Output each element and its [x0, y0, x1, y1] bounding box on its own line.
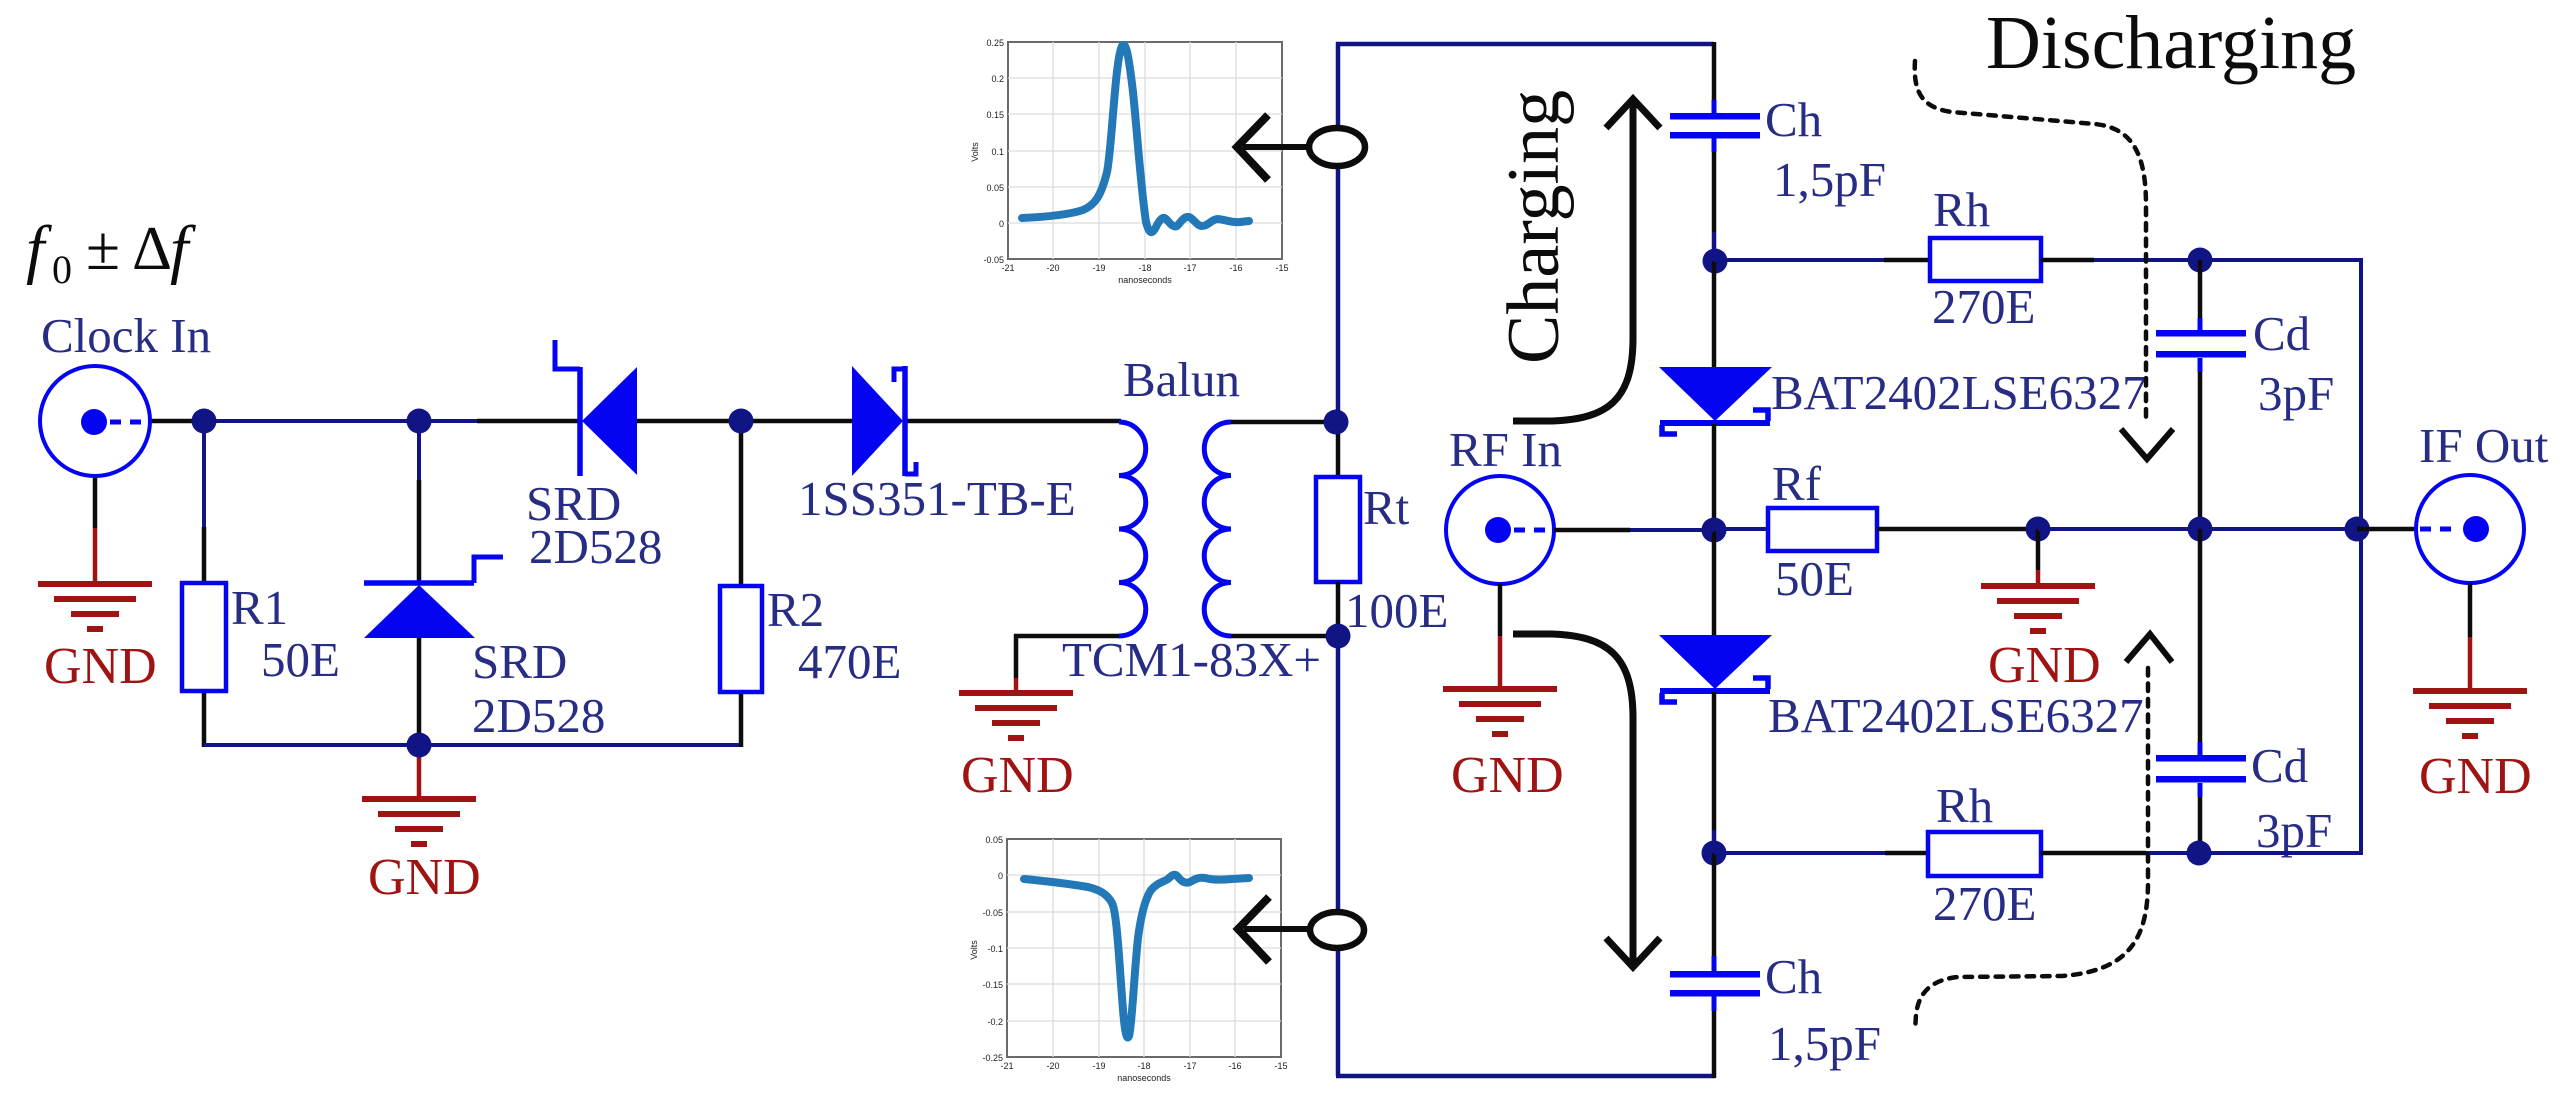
wire node L to ground: [2036, 529, 2041, 585]
ground clock: [38, 581, 152, 632]
svg-text:Charging: Charging: [1493, 90, 1575, 364]
label Discharging: [1986, 1, 2356, 85]
svg-text:3pF: 3pF: [2256, 803, 2332, 858]
node D junction dot: [407, 733, 432, 758]
resistor Rt: [1316, 477, 1360, 582]
wire Rh bottom to node N: [2041, 851, 2202, 856]
label Rf: [1772, 456, 1822, 511]
wire RF In to ground: [1498, 584, 1503, 688]
svg-text:1SS351-TB-E: 1SS351-TB-E: [798, 471, 1076, 526]
svg-text:-16: -16: [1229, 263, 1242, 273]
label IF Out: [2419, 418, 2549, 473]
wire node G to diode Q1: [1712, 261, 1717, 368]
graph top pulse plot: [970, 38, 1289, 285]
svg-text:-16: -16: [1228, 1061, 1241, 1071]
wire SRD1 to node C: [634, 419, 742, 424]
resistor Rh bottom: [1928, 832, 2041, 876]
svg-text:BAT2402LSE6327: BAT2402LSE6327: [1768, 688, 2144, 743]
label Rt value 100E: [1345, 583, 1448, 638]
resistor R1: [182, 583, 226, 691]
label RF In: [1449, 422, 1562, 477]
svg-text:Volts: Volts: [969, 940, 979, 960]
wire Q2 to node I: [1712, 692, 1717, 855]
svg-text:-17: -17: [1183, 263, 1196, 273]
diode D1 1SS351: [852, 366, 916, 476]
connector RF In: [1446, 476, 1554, 584]
wire node I to Ch bottom: [1712, 853, 1717, 971]
svg-text:Cd: Cd: [2251, 738, 2308, 793]
wire node B to SRD1: [419, 419, 580, 423]
wire node J to right rail: [2200, 258, 2363, 262]
svg-text:1,5pF: 1,5pF: [1773, 152, 1886, 207]
svg-text:Balun: Balun: [1123, 352, 1240, 407]
wire RF In to node H: [1554, 528, 1714, 533]
svg-text:-21: -21: [1001, 263, 1014, 273]
label Ch bottom: [1765, 949, 1822, 1004]
label Rf value 50E: [1775, 551, 1854, 606]
label SRD2 part 2D528: [472, 688, 605, 743]
label SRD1 part 2D528: [529, 519, 662, 574]
transformer balun secondary: [1204, 422, 1231, 636]
wire loop left vertical upper: [1336, 42, 1341, 424]
label Cd bottom: [2251, 738, 2308, 793]
svg-text:-19: -19: [1092, 263, 1105, 273]
svg-text:BAT2402LSE6327: BAT2402LSE6327: [1771, 365, 2147, 420]
svg-text:-19: -19: [1092, 1061, 1105, 1071]
dashed discharging path top: [1915, 61, 2173, 459]
node G junction dot: [1703, 249, 1728, 274]
arrow top graph pointer: [1237, 115, 1309, 180]
resistor Rf: [1768, 508, 1877, 551]
label R2 value 470E: [798, 634, 901, 689]
svg-text:TCM1-83X+: TCM1-83X+: [1062, 632, 1321, 687]
node H junction dot: [1702, 518, 1727, 543]
wire Q1 to node H: [1712, 424, 1717, 531]
wire D1 to balun primary: [905, 419, 1121, 424]
wire node G to Rh top: [1714, 258, 1932, 262]
svg-text:-0.1: -0.1: [987, 944, 1003, 954]
svg-text:0.2: 0.2: [991, 74, 1004, 84]
node C junction dot: [729, 409, 754, 434]
ground label GND Rf line: [1988, 637, 2101, 694]
label Q1 BAT2402LSE6327: [1771, 365, 2147, 420]
svg-text:0: 0: [999, 219, 1004, 229]
wire node J to Cd top: [2198, 260, 2203, 330]
svg-text:0.25: 0.25: [986, 38, 1004, 48]
wire balun secondary top to node E: [1231, 420, 1338, 425]
wire Cd top to node K: [2198, 358, 2203, 531]
graph bottom pulse plot: [969, 835, 1288, 1083]
probe ellipse top: [1309, 128, 1365, 166]
svg-text:Discharging: Discharging: [1986, 1, 2356, 85]
node A junction dot: [192, 409, 217, 434]
svg-text:270E: 270E: [1933, 876, 2036, 931]
wire node K to Cd bottom: [2198, 529, 2203, 755]
svg-text:2D528: 2D528: [529, 519, 662, 574]
ground IF Out: [2413, 688, 2527, 739]
wire Cd bottom to node N: [2198, 783, 2203, 855]
probe ellipse bottom: [1310, 912, 1364, 948]
label Clock In: [41, 308, 211, 363]
label R1: [231, 580, 288, 635]
svg-text:Rt: Rt: [1363, 480, 1410, 535]
label Rt: [1363, 480, 1410, 535]
wire node H to diode Q2: [1712, 530, 1717, 636]
label Ch top value 1,5pF: [1773, 152, 1886, 207]
arrow charging up: [1513, 99, 1660, 421]
svg-text:-15: -15: [1274, 1061, 1287, 1071]
ground balun: [959, 690, 1073, 741]
svg-text:50E: 50E: [1775, 551, 1854, 606]
svg-text:nanoseconds: nanoseconds: [1118, 275, 1172, 285]
node I junction dot: [1702, 841, 1727, 866]
wire clock to node A: [149, 419, 205, 424]
node F junction dot: [1326, 624, 1351, 649]
svg-text:-15: -15: [1275, 263, 1288, 273]
label f0 +- delta f: [26, 213, 196, 292]
wire node E to Rt: [1336, 422, 1341, 477]
label Rh top value 270E: [1932, 279, 2035, 334]
svg-text:GND: GND: [44, 638, 157, 695]
connector IF Out: [2416, 475, 2524, 583]
ground RF In: [1443, 686, 1557, 737]
wire Rh top to node J: [2041, 258, 2202, 263]
label Ch bottom value 1,5pF: [1768, 1016, 1881, 1071]
svg-text:RF In: RF In: [1449, 422, 1562, 477]
svg-text:-20: -20: [1046, 263, 1059, 273]
dashed discharging path bottom: [1915, 634, 2172, 1031]
node L junction dot: [2026, 517, 2051, 542]
wire right rail vertical: [2359, 258, 2363, 855]
wire balun primary bottom to ground: [1016, 636, 1119, 692]
svg-text:0.15: 0.15: [986, 110, 1004, 120]
svg-text:0: 0: [998, 871, 1003, 881]
svg-text:2D528: 2D528: [472, 688, 605, 743]
svg-text:-0.15: -0.15: [982, 980, 1003, 990]
wire IF Out to ground: [2468, 583, 2473, 690]
wire Rf to node L: [1877, 527, 2040, 532]
wire Ch bottom to loop: [1712, 996, 1717, 1078]
svg-text:± Δ: ± Δ: [86, 215, 172, 283]
label Rh bottom value 270E: [1933, 876, 2036, 931]
ground label GND clock: [44, 638, 157, 695]
svg-text:GND: GND: [368, 849, 481, 906]
svg-text:Clock In: Clock In: [41, 308, 211, 363]
svg-text:470E: 470E: [798, 634, 901, 689]
label SRD1: [526, 476, 621, 531]
capacitor Ch top: [1670, 113, 1760, 139]
svg-text:Ch: Ch: [1765, 949, 1822, 1004]
label Ch top: [1765, 92, 1822, 147]
wire loop bottom horizontal: [1336, 1074, 1715, 1079]
ground label GND SRD: [368, 849, 481, 906]
capacitor Cd bottom: [2156, 755, 2246, 783]
svg-text:Volts: Volts: [970, 142, 980, 162]
svg-text:100E: 100E: [1345, 583, 1448, 638]
label Cd top: [2253, 306, 2310, 361]
wire clock to ground: [93, 475, 98, 584]
diode SRD2 shunt: [364, 557, 503, 638]
arrow charging down: [1513, 634, 1660, 967]
node K junction dot: [2188, 517, 2213, 542]
svg-text:0.05: 0.05: [986, 183, 1004, 193]
svg-text:270E: 270E: [1932, 279, 2035, 334]
svg-text:R1: R1: [231, 580, 288, 635]
label R2: [767, 582, 824, 637]
ground label GND RF In: [1451, 747, 1564, 804]
diode Q1 BAT2402 top: [1659, 367, 1772, 434]
ground label GND balun: [961, 747, 1074, 804]
node J junction dot: [2188, 248, 2213, 273]
wire R2 to bottom rail: [739, 692, 744, 747]
wire loop left vertical lower: [1336, 634, 1341, 1076]
svg-text:GND: GND: [1988, 637, 2101, 694]
diode SRD1 series: [555, 340, 637, 476]
wire node K to node M: [2200, 527, 2359, 531]
svg-text:IF Out: IF Out: [2419, 418, 2549, 473]
ground SRD: [362, 796, 476, 847]
wire Ch to node G: [1712, 138, 1717, 262]
svg-text:-0.2: -0.2: [987, 1017, 1003, 1027]
label R1 value 50E: [261, 632, 340, 687]
wire bottom rail left: [204, 743, 741, 747]
ground label GND IF Out: [2419, 748, 2532, 805]
svg-text:-18: -18: [1138, 263, 1151, 273]
svg-text:GND: GND: [1451, 747, 1564, 804]
transformer balun primary: [1119, 422, 1146, 636]
node B junction dot: [407, 409, 432, 434]
label Cd top value 3pF: [2258, 366, 2334, 421]
svg-text:-17: -17: [1183, 1061, 1196, 1071]
label D1 1SS351-TB-E: [798, 471, 1076, 526]
svg-text:Cd: Cd: [2253, 306, 2310, 361]
svg-text:R2: R2: [767, 582, 824, 637]
diode Q2 BAT2402 bottom: [1659, 635, 1772, 702]
node E junction dot: [1324, 410, 1349, 435]
wire loop top horizontal: [1336, 42, 1714, 47]
label Rh bottom: [1936, 778, 1993, 833]
capacitor Cd top: [2156, 330, 2246, 358]
label SRD2: [472, 634, 567, 689]
wire R1 to bottom rail: [202, 691, 207, 747]
svg-text:Rh: Rh: [1933, 182, 1990, 237]
label Rh top: [1933, 182, 1990, 237]
wire Rt to node F: [1336, 582, 1341, 638]
wire node C to D1: [741, 419, 853, 424]
wire node D to ground: [417, 745, 422, 799]
wire node A to R1: [202, 421, 206, 583]
svg-text:-21: -21: [1000, 1061, 1013, 1071]
wire node C to R2: [739, 421, 744, 586]
svg-text:GND: GND: [961, 747, 1074, 804]
svg-text:-20: -20: [1046, 1061, 1059, 1071]
resistor R2: [720, 586, 762, 692]
wire node N to right rail: [2199, 851, 2363, 855]
ground Rf line: [1981, 583, 2095, 634]
svg-text:Rf: Rf: [1772, 456, 1822, 511]
capacitor Ch bottom: [1670, 971, 1760, 997]
label Q2 BAT2402LSE6327: [1768, 688, 2144, 743]
label Charging: [1493, 90, 1575, 364]
svg-text:nanoseconds: nanoseconds: [1117, 1073, 1171, 1083]
svg-text:-0.05: -0.05: [982, 908, 1003, 918]
wire right branch top black: [1712, 42, 1717, 113]
wire node B to SRD2: [417, 421, 421, 585]
connector Clock In: [40, 366, 150, 476]
wire node H to Rf: [1714, 527, 1770, 531]
svg-text:GND: GND: [2419, 748, 2532, 805]
wire SRD2 to node D: [417, 637, 422, 745]
svg-text:0.1: 0.1: [991, 147, 1004, 157]
wire node I to Rh bottom: [1714, 851, 1930, 855]
svg-text:0.05: 0.05: [985, 835, 1003, 845]
resistor Rh top: [1930, 238, 2041, 281]
wire node L to node K: [2038, 527, 2202, 531]
label Balun: [1123, 352, 1240, 407]
svg-text:Ch: Ch: [1765, 92, 1822, 147]
svg-text:-18: -18: [1137, 1061, 1150, 1071]
label Cd bottom value 3pF: [2256, 803, 2332, 858]
arrow bottom graph pointer: [1238, 897, 1310, 962]
svg-text:Rh: Rh: [1936, 778, 1993, 833]
wire node M to IF Out: [2357, 527, 2417, 532]
wire balun secondary bottom to node F: [1231, 634, 1338, 639]
node N junction dot: [2187, 841, 2212, 866]
wire node A to node B: [204, 419, 419, 423]
svg-text:3pF: 3pF: [2258, 366, 2334, 421]
svg-text:0: 0: [52, 247, 72, 292]
svg-text:1,5pF: 1,5pF: [1768, 1016, 1881, 1071]
svg-text:SRD: SRD: [472, 634, 567, 689]
node M junction dot: [2345, 517, 2370, 542]
svg-text:50E: 50E: [261, 632, 340, 687]
label TCM1-83X+: [1062, 632, 1321, 687]
